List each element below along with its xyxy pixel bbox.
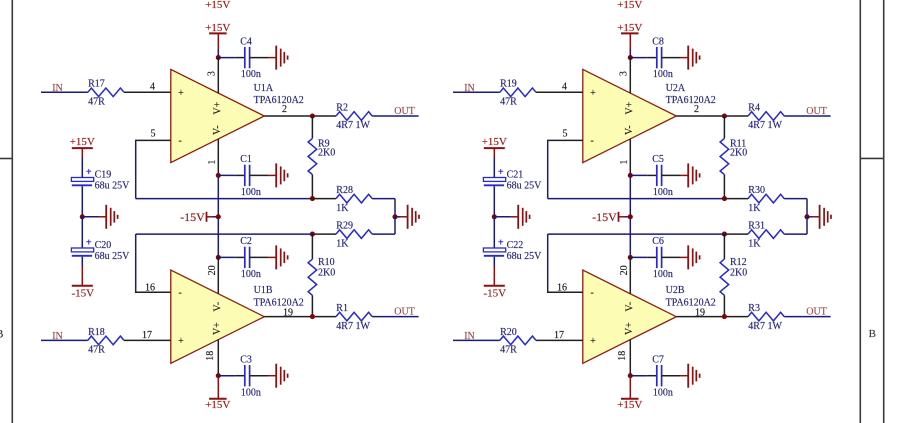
resistor R9 2K0	[308, 116, 335, 199]
wire U2A out to node	[724, 115, 748, 117]
node pin 18 / C7 junction	[628, 373, 633, 378]
wire C6 to ground	[662, 256, 689, 258]
svg-text:5: 5	[151, 128, 156, 139]
svg-text:100n: 100n	[653, 187, 673, 198]
svg-text:+15V: +15V	[205, 399, 230, 411]
wire C3 to ground	[250, 375, 277, 377]
op-amp U1A TPA6120A2	[171, 69, 264, 162]
pin 20 (V-) of U1B	[207, 257, 219, 293]
svg-text:B: B	[869, 328, 876, 340]
svg-text:C6: C6	[652, 236, 664, 247]
resistor R17 47R	[88, 79, 124, 108]
svg-text:47R: 47R	[500, 97, 517, 108]
wire pin1 node to C5	[630, 174, 657, 176]
svg-text:100n: 100n	[653, 269, 673, 280]
wire U2B out to node	[724, 316, 748, 318]
svg-text:+: +	[590, 336, 596, 347]
power +15V (pin 18 rail)	[617, 376, 642, 411]
capacitor C19 68u 25V (polarized)	[71, 167, 130, 191]
svg-text:C20: C20	[95, 240, 112, 251]
op-amp U2B TPA6120A2	[583, 270, 677, 363]
svg-text:100n: 100n	[241, 269, 261, 280]
node pin 18 / C3 junction	[216, 373, 221, 378]
capacitor C4 100n	[240, 36, 261, 80]
node feedback B	[722, 232, 727, 237]
node feedback A	[310, 196, 315, 201]
svg-text:-15V: -15V	[483, 288, 506, 300]
wire R29 to node	[312, 233, 336, 235]
svg-text:100n: 100n	[653, 387, 673, 398]
wire mid node to C20	[81, 217, 83, 248]
wire C8 to ground	[662, 57, 689, 59]
svg-text:68u 25V: 68u 25V	[95, 251, 131, 262]
svg-text:+: +	[498, 167, 504, 178]
svg-text:C22: C22	[507, 240, 524, 251]
svg-text:V+: V+	[213, 101, 224, 114]
svg-text:-15V: -15V	[180, 210, 205, 224]
resistor R1 4R7 1W	[336, 303, 372, 332]
power -15V (rail)	[180, 210, 212, 224]
svg-text:TPA6120A2: TPA6120A2	[254, 297, 304, 308]
svg-text:2K0: 2K0	[318, 267, 335, 278]
svg-text:-: -	[179, 136, 182, 147]
svg-text:47R: 47R	[88, 345, 105, 356]
svg-text:R18: R18	[88, 327, 105, 338]
svg-text:2K0: 2K0	[730, 267, 747, 278]
svg-text:+15V: +15V	[482, 136, 507, 148]
svg-text:19: 19	[283, 307, 293, 318]
svg-text:4: 4	[150, 82, 155, 93]
wire pin 16 feedback	[548, 234, 725, 292]
ground (at C3)	[276, 364, 287, 388]
designator U1A	[254, 83, 274, 94]
node pin 20 / C2 junction	[216, 255, 221, 260]
sheet border left vertical	[11, 0, 13, 423]
resistor R31 1K	[748, 221, 784, 250]
wire IN to R17	[41, 91, 88, 93]
ground (at C2)	[276, 245, 287, 269]
svg-text:+: +	[86, 167, 92, 178]
pin 17 of U2B	[536, 330, 583, 341]
wire ground column to R31	[784, 217, 807, 234]
svg-text:R31: R31	[748, 221, 765, 232]
ground (feedback divider)	[408, 205, 419, 229]
port OUT (channel B)	[394, 307, 415, 318]
power -15V (decoupling chain)	[71, 266, 94, 300]
pin 18 (V+) of U2B	[617, 339, 631, 375]
svg-text:OUT: OUT	[394, 307, 415, 318]
capacitor C2 100n	[240, 236, 261, 280]
wire pin20 node to C6	[630, 256, 657, 258]
svg-text:C1: C1	[240, 154, 252, 165]
svg-text:+15V: +15V	[205, 0, 230, 11]
svg-text:1K: 1K	[748, 203, 761, 214]
svg-text:+15V: +15V	[70, 136, 95, 148]
pin 4 of U1A	[124, 82, 171, 93]
svg-text:+: +	[498, 238, 504, 249]
ground (at C4)	[276, 46, 287, 70]
wire U1B out to node	[312, 316, 336, 318]
svg-text:68u 25V: 68u 25V	[507, 181, 542, 192]
sheet border right outer vertical	[883, 0, 885, 423]
resistor R28 1K	[336, 185, 372, 214]
wire -15V to rail	[213, 216, 219, 218]
svg-text:+: +	[86, 238, 92, 249]
wire C22 to -15V	[493, 257, 495, 266]
svg-text:5: 5	[563, 128, 568, 139]
svg-text:U2A: U2A	[666, 83, 686, 94]
svg-text:V-: V-	[213, 302, 224, 312]
designator U2A	[666, 83, 686, 94]
svg-text:V-: V-	[624, 125, 635, 135]
svg-text:1: 1	[619, 160, 630, 165]
pin 19 (out) of U2B	[676, 307, 724, 318]
port OUT (channel A)	[394, 106, 415, 117]
port IN (channel B)	[52, 331, 63, 342]
svg-text:68u 25V: 68u 25V	[507, 251, 542, 262]
op-amp U2A TPA6120A2	[583, 69, 677, 162]
svg-text:1K: 1K	[336, 238, 349, 249]
svg-text:TPA6120A2: TPA6120A2	[254, 95, 304, 106]
capacitor C3 100n	[240, 355, 261, 399]
wire V- supply rail	[629, 175, 631, 257]
wire pin3 node to C4	[218, 57, 245, 59]
resistor R20 47R	[500, 327, 536, 356]
wire R1 to OUT	[372, 316, 418, 318]
svg-text:C3: C3	[240, 355, 252, 366]
power +15V (pin 3 rail)	[205, 22, 230, 49]
svg-text:R4: R4	[748, 102, 760, 113]
pin 3 (V+) of U2A	[618, 58, 630, 94]
part name TPA6120A2 (U1A)	[254, 95, 304, 106]
power +15V (decoupling chain)	[70, 136, 95, 158]
svg-text:20: 20	[207, 265, 218, 275]
svg-text:OUT: OUT	[806, 307, 827, 318]
resistor R11 2K0	[720, 116, 747, 199]
svg-text:16: 16	[145, 282, 155, 293]
capacitor C8 100n	[652, 36, 673, 80]
wire C21 to mid node	[493, 186, 495, 217]
wire pin 5 feedback	[548, 140, 725, 198]
ground (feedback divider)	[820, 205, 831, 229]
svg-text:4: 4	[562, 82, 567, 93]
wire mid node to ground	[82, 216, 106, 218]
node feedback B	[310, 232, 315, 237]
svg-text:C8: C8	[652, 36, 664, 47]
ground (at C8)	[688, 46, 699, 70]
svg-text:C4: C4	[240, 36, 252, 47]
pin 17 of U1B	[124, 330, 171, 341]
svg-text:-: -	[591, 136, 594, 147]
resistor R29 1K	[336, 221, 372, 250]
wire V- supply rail	[217, 175, 219, 257]
svg-text:-15V: -15V	[71, 288, 94, 300]
wire C5 to ground	[662, 174, 689, 176]
power +15V (pin 3 rail)	[617, 22, 642, 49]
node pin 20 / C6 junction	[628, 255, 633, 260]
svg-text:+: +	[590, 88, 596, 99]
svg-text:U2B: U2B	[666, 285, 685, 296]
capacitor C20 68u 25V (polarized)	[71, 238, 130, 262]
svg-text:U1B: U1B	[254, 285, 273, 296]
svg-text:2K0: 2K0	[730, 148, 747, 159]
svg-text:4R7 1W: 4R7 1W	[336, 120, 370, 131]
svg-text:R20: R20	[500, 327, 517, 338]
ground (at C5)	[688, 163, 699, 187]
node output B	[310, 314, 315, 319]
wire R28 to ground column	[372, 199, 395, 217]
capacitor C7 100n	[652, 355, 673, 399]
wire R4 to OUT	[784, 115, 830, 117]
resistor R19 47R	[500, 79, 536, 108]
node ground column	[804, 214, 809, 219]
power -15V (decoupling chain)	[483, 266, 506, 300]
power +15V (decoupling chain)	[482, 136, 507, 158]
wire +15V to C21	[493, 158, 495, 178]
svg-text:18: 18	[205, 351, 216, 361]
wire R30 to ground column	[784, 199, 807, 217]
wire mid node to ground	[494, 216, 518, 218]
wire C1 to ground	[250, 174, 277, 176]
svg-text:OUT: OUT	[806, 106, 827, 117]
node output A	[722, 113, 727, 118]
svg-text:R17: R17	[88, 79, 105, 90]
wire IN to R18	[41, 339, 88, 341]
resistor R30 1K	[748, 185, 784, 214]
svg-text:3: 3	[618, 71, 629, 76]
wire mid node to C22	[493, 217, 495, 248]
svg-text:V-: V-	[625, 302, 636, 312]
sheet border left zone tick	[0, 158, 12, 160]
svg-text:4R7 1W: 4R7 1W	[748, 321, 782, 332]
svg-text:U1A: U1A	[254, 83, 274, 94]
wire IN to R20	[453, 339, 500, 341]
port IN (channel A)	[464, 83, 475, 94]
capacitor C5 100n	[652, 154, 673, 198]
svg-text:C7: C7	[652, 355, 664, 366]
ground (decoupling chain)	[106, 205, 117, 229]
svg-text:-15V: -15V	[592, 210, 617, 224]
wire R31 to node	[724, 233, 748, 235]
resistor R12 2K0	[720, 234, 747, 317]
pin 16 of U1B	[135, 282, 171, 293]
power -15V (rail)	[592, 210, 624, 224]
node pin 3 / C4 junction	[216, 55, 221, 60]
svg-text:100n: 100n	[241, 387, 261, 398]
ground (decoupling chain)	[518, 205, 529, 229]
node pin 1 / C5 junction	[628, 173, 633, 178]
wire IN to R19	[453, 91, 500, 93]
wire C7 to ground	[662, 375, 689, 377]
pin 2 (out) of U2A	[676, 104, 724, 116]
svg-text:1K: 1K	[336, 203, 349, 214]
pin 2 (out) of U1A	[264, 104, 312, 116]
sheet border right zone tick	[860, 157, 883, 159]
sheet border zone letter B (left, clipped)	[0, 327, 4, 341]
svg-text:V+: V+	[625, 101, 636, 114]
port OUT (channel A)	[806, 106, 827, 117]
node output B	[722, 314, 727, 319]
svg-text:B: B	[0, 327, 4, 341]
svg-text:R30: R30	[748, 185, 765, 196]
svg-text:C2: C2	[240, 236, 252, 247]
wire C19 to mid node	[81, 186, 83, 217]
resistor R2 4R7 1W	[336, 102, 372, 131]
node -15V on rail	[216, 214, 221, 219]
svg-text:R1: R1	[336, 303, 348, 314]
ground (at C7)	[688, 364, 699, 388]
svg-text:-: -	[591, 288, 594, 299]
wire pin18 node to C7	[630, 375, 657, 377]
pin 16 of U2B	[547, 282, 583, 293]
ground (at C6)	[688, 245, 699, 269]
wire +15V bar to pin 3 node	[217, 49, 219, 58]
svg-text:20: 20	[619, 265, 630, 275]
pin 18 (V+) of U1B	[205, 339, 219, 375]
wire -15V to rail	[625, 216, 631, 218]
pin 1 (V-) of U2A	[619, 139, 631, 175]
designator U2B	[666, 285, 685, 296]
node ground column	[392, 214, 397, 219]
op-amp U1B TPA6120A2	[171, 270, 264, 363]
pin 1 (V-) of U1A	[207, 139, 219, 175]
pin 4 of U2A	[536, 82, 583, 93]
wire ground column to R29	[372, 217, 395, 234]
power +15V (top, off-sheet bar)	[205, 0, 230, 11]
wire node to R30	[724, 198, 748, 200]
part name TPA6120A2 (U2A)	[666, 95, 716, 106]
svg-text:C21: C21	[507, 169, 524, 180]
svg-text:+: +	[178, 336, 184, 347]
svg-text:4R7 1W: 4R7 1W	[748, 120, 782, 131]
part name TPA6120A2 (U2B)	[666, 297, 716, 308]
svg-text:100n: 100n	[653, 69, 673, 80]
designator U1B	[254, 285, 273, 296]
node -15V on rail	[628, 214, 633, 219]
svg-text:18: 18	[617, 351, 628, 361]
svg-text:17: 17	[554, 330, 564, 341]
part name TPA6120A2 (U1B)	[254, 297, 304, 308]
wire pin18 node to C3	[218, 375, 245, 377]
wire node to R28	[312, 198, 336, 200]
capacitor C21 68u 25V (polarized)	[483, 167, 542, 191]
pin 5 of U1A	[135, 128, 171, 140]
wire pin 5 feedback	[136, 140, 313, 198]
svg-text:OUT: OUT	[394, 106, 415, 117]
svg-text:1K: 1K	[748, 238, 761, 249]
wire ground column stub	[807, 216, 820, 218]
svg-text:4R7 1W: 4R7 1W	[336, 321, 370, 332]
svg-text:TPA6120A2: TPA6120A2	[666, 297, 716, 308]
svg-text:1: 1	[207, 160, 218, 165]
wire pin20 node to C2	[218, 256, 245, 258]
wire +15V bar to pin 3 node	[629, 49, 631, 58]
svg-text:3: 3	[206, 71, 217, 76]
wire R3 to OUT	[784, 316, 830, 318]
svg-text:R2: R2	[336, 102, 348, 113]
sheet border zone letter B (right)	[869, 328, 876, 340]
svg-text:R29: R29	[336, 221, 353, 232]
power +15V (top, off-sheet bar)	[617, 0, 642, 11]
svg-text:+15V: +15V	[617, 0, 642, 11]
port OUT (channel B)	[806, 307, 827, 318]
pin 19 (out) of U1B	[264, 307, 312, 318]
svg-text:R28: R28	[336, 185, 353, 196]
svg-text:+15V: +15V	[617, 399, 642, 411]
wire C4 to ground	[250, 57, 277, 59]
svg-text:V-: V-	[212, 125, 223, 135]
svg-text:-: -	[179, 288, 182, 299]
svg-text:TPA6120A2: TPA6120A2	[666, 95, 716, 106]
node feedback A	[722, 196, 727, 201]
wire +15V to C19	[81, 158, 83, 178]
pin 20 (V-) of U2B	[619, 257, 631, 293]
svg-text:V+: V+	[212, 322, 223, 335]
port IN (channel A)	[52, 83, 63, 94]
svg-text:R3: R3	[748, 303, 760, 314]
svg-text:100n: 100n	[241, 187, 261, 198]
svg-text:100n: 100n	[241, 69, 261, 80]
ground (at C1)	[276, 163, 287, 187]
port IN (channel B)	[464, 331, 475, 342]
capacitor C6 100n	[652, 236, 673, 280]
wire C20 to -15V	[81, 257, 83, 266]
svg-text:2K0: 2K0	[318, 148, 335, 159]
svg-text:17: 17	[142, 330, 152, 341]
resistor R4 4R7 1W	[748, 102, 784, 131]
power +15V (pin 18 rail)	[205, 376, 230, 411]
wire U1A out to node	[312, 115, 336, 117]
node pin 3 / C8 junction	[628, 55, 633, 60]
svg-text:47R: 47R	[88, 97, 105, 108]
pin 5 of U2A	[547, 128, 583, 140]
svg-text:68u 25V: 68u 25V	[95, 181, 131, 192]
wire ground column stub	[395, 216, 408, 218]
svg-text:47R: 47R	[500, 345, 517, 356]
node decoupling mid	[80, 214, 85, 219]
svg-text:16: 16	[557, 282, 567, 293]
pin 3 (V+) of U1A	[206, 58, 218, 94]
svg-text:19: 19	[695, 307, 705, 318]
wire pin1 node to C1	[218, 174, 245, 176]
svg-text:R19: R19	[500, 79, 517, 90]
resistor R3 4R7 1W	[748, 303, 784, 332]
sheet border right inner vertical	[859, 0, 861, 423]
svg-text:C5: C5	[652, 154, 664, 165]
wire pin 16 feedback	[136, 234, 313, 292]
resistor R10 2K0	[308, 234, 335, 317]
svg-text:2: 2	[282, 104, 287, 115]
resistor R18 47R	[88, 327, 124, 356]
wire C2 to ground	[250, 256, 277, 258]
svg-text:V+: V+	[624, 322, 635, 335]
svg-text:C19: C19	[95, 169, 112, 180]
svg-text:+: +	[178, 88, 184, 99]
node pin 1 / C1 junction	[216, 173, 221, 178]
wire pin3 node to C8	[630, 57, 657, 59]
wire R2 to OUT	[372, 115, 418, 117]
capacitor C1 100n	[240, 154, 261, 198]
node decoupling mid	[492, 214, 497, 219]
node output A	[310, 113, 315, 118]
svg-text:2: 2	[694, 104, 699, 115]
capacitor C22 68u 25V (polarized)	[483, 238, 542, 262]
